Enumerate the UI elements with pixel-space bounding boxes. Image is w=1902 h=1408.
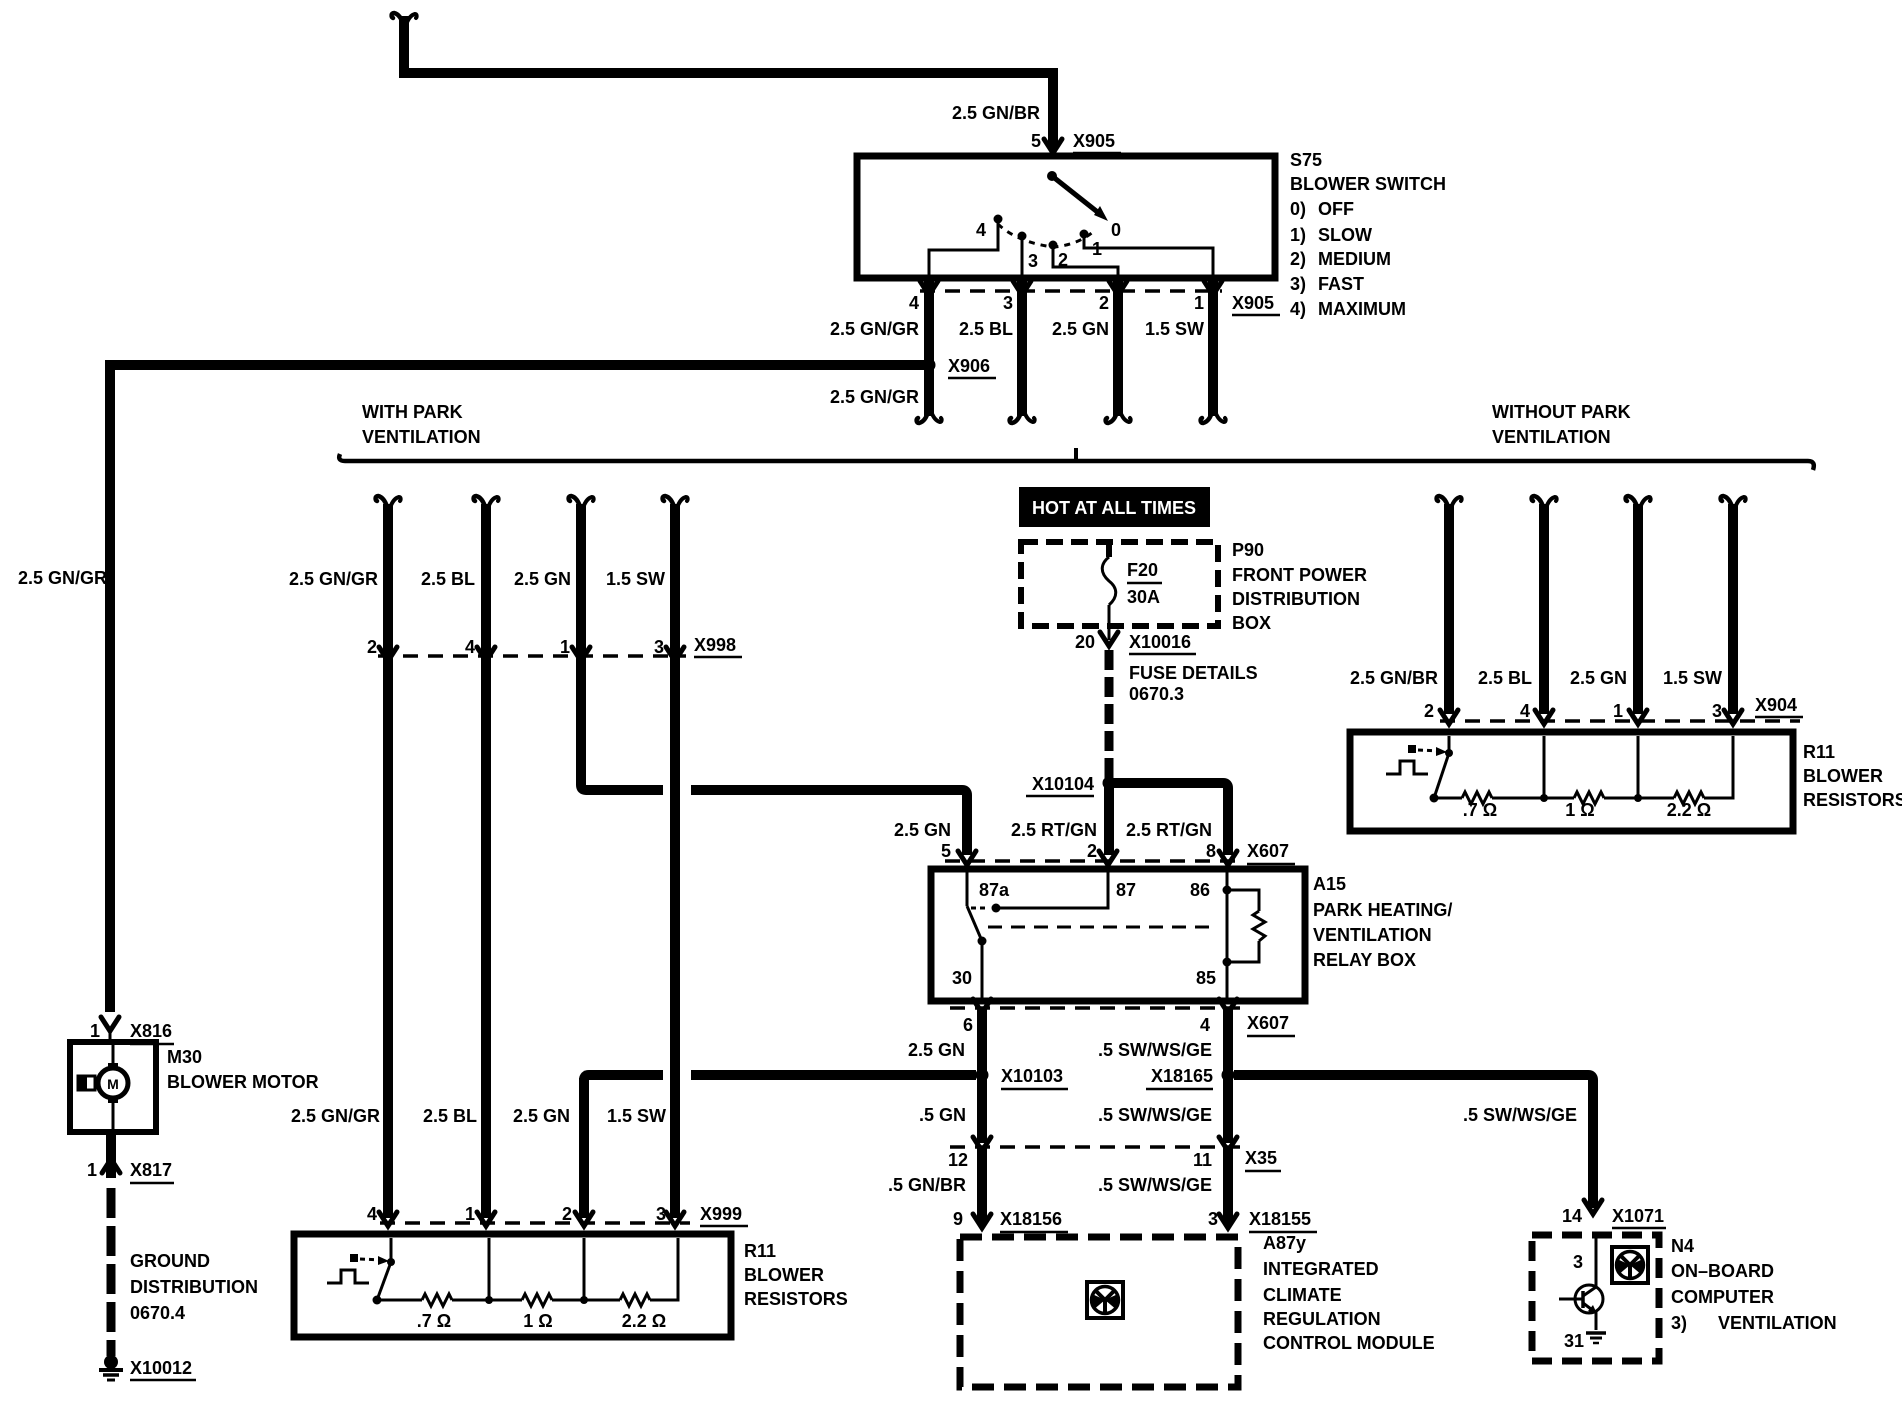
svg-text:FAST: FAST — [1318, 274, 1364, 294]
svg-text:2: 2 — [1087, 841, 1097, 861]
svg-text:2.5 GN/GR: 2.5 GN/GR — [830, 387, 919, 407]
svg-text:3: 3 — [656, 1204, 666, 1224]
svg-text:4: 4 — [976, 220, 986, 240]
svg-text:2.5 GN/GR: 2.5 GN/GR — [289, 569, 378, 589]
svg-text:2.5 BL: 2.5 BL — [959, 319, 1013, 339]
svg-text:3: 3 — [1208, 1209, 1218, 1229]
svg-text:2.5 GN: 2.5 GN — [513, 1106, 570, 1126]
svg-text:RESISTORS: RESISTORS — [744, 1289, 848, 1309]
svg-text:1): 1) — [1290, 225, 1306, 245]
svg-text:R11: R11 — [744, 1241, 776, 1261]
svg-text:RESISTORS: RESISTORS — [1803, 790, 1902, 810]
svg-text:2: 2 — [367, 637, 377, 657]
svg-text:30A: 30A — [1127, 587, 1160, 607]
svg-text:X905: X905 — [1232, 293, 1274, 313]
svg-text:BLOWER SWITCH: BLOWER SWITCH — [1290, 174, 1446, 194]
svg-text:.7 Ω: .7 Ω — [1463, 800, 1497, 820]
svg-text:2.5 RT/GN: 2.5 RT/GN — [1126, 820, 1212, 840]
svg-text:X607: X607 — [1247, 1013, 1289, 1033]
svg-text:MAXIMUM: MAXIMUM — [1318, 299, 1406, 319]
svg-text:8: 8 — [1206, 841, 1216, 861]
svg-text:X607: X607 — [1247, 841, 1289, 861]
svg-text:30: 30 — [952, 968, 972, 988]
svg-text:2.5 GN: 2.5 GN — [894, 820, 951, 840]
svg-text:1: 1 — [1194, 293, 1204, 313]
svg-text:0670.4: 0670.4 — [130, 1303, 185, 1323]
svg-text:.5 SW/WS/GE: .5 SW/WS/GE — [1098, 1040, 1212, 1060]
svg-text:F20: F20 — [1127, 560, 1158, 580]
svg-text:X817: X817 — [130, 1160, 172, 1180]
svg-text:BLOWER: BLOWER — [744, 1265, 824, 1285]
svg-text:2.5 GN/GR: 2.5 GN/GR — [830, 319, 919, 339]
svg-text:COMPUTER: COMPUTER — [1671, 1287, 1774, 1307]
svg-text:86: 86 — [1190, 880, 1210, 900]
svg-text:2.2 Ω: 2.2 Ω — [1667, 800, 1711, 820]
svg-text:2.5 GN/GR: 2.5 GN/GR — [18, 568, 107, 588]
svg-text:5: 5 — [1031, 131, 1041, 151]
svg-text:RELAY BOX: RELAY BOX — [1313, 950, 1416, 970]
svg-text:2: 2 — [1099, 293, 1109, 313]
svg-text:X905: X905 — [1073, 131, 1115, 151]
svg-text:1.5 SW: 1.5 SW — [607, 1106, 666, 1126]
svg-text:2.5 RT/GN: 2.5 RT/GN — [1011, 820, 1097, 840]
svg-text:2): 2) — [1290, 249, 1306, 269]
svg-text:4: 4 — [367, 1204, 377, 1224]
svg-text:2.5 BL: 2.5 BL — [423, 1106, 477, 1126]
svg-text:4: 4 — [909, 293, 919, 313]
svg-text:FUSE DETAILS: FUSE DETAILS — [1129, 663, 1258, 683]
svg-text:VENTILATION: VENTILATION — [1492, 427, 1611, 447]
svg-text:WITHOUT PARK: WITHOUT PARK — [1492, 402, 1631, 422]
svg-text:2.5 BL: 2.5 BL — [1478, 668, 1532, 688]
svg-text:12: 12 — [948, 1150, 968, 1170]
svg-text:1: 1 — [1613, 701, 1623, 721]
svg-text:31: 31 — [1564, 1331, 1584, 1351]
svg-text:5: 5 — [941, 841, 951, 861]
svg-text:1: 1 — [560, 637, 570, 657]
svg-text:X18155: X18155 — [1249, 1209, 1311, 1229]
svg-text:6: 6 — [963, 1015, 973, 1035]
svg-text:2: 2 — [1424, 701, 1434, 721]
svg-text:3: 3 — [1028, 251, 1038, 271]
svg-text:P90: P90 — [1232, 540, 1264, 560]
svg-text:OFF: OFF — [1318, 199, 1354, 219]
svg-text:1 Ω: 1 Ω — [1565, 800, 1594, 820]
svg-text:X816: X816 — [130, 1021, 172, 1041]
svg-text:X1071: X1071 — [1612, 1206, 1664, 1226]
svg-text:.5 GN/BR: .5 GN/BR — [888, 1175, 966, 1195]
svg-text:X998: X998 — [694, 635, 736, 655]
svg-text:2.5 GN/GR: 2.5 GN/GR — [291, 1106, 380, 1126]
svg-text:REGULATION: REGULATION — [1263, 1309, 1381, 1329]
svg-text:2.5 BL: 2.5 BL — [421, 569, 475, 589]
svg-text:2.2 Ω: 2.2 Ω — [622, 1311, 666, 1331]
svg-text:4: 4 — [1200, 1015, 1210, 1035]
svg-text:3): 3) — [1671, 1313, 1687, 1333]
svg-text:4): 4) — [1290, 299, 1306, 319]
svg-text:1: 1 — [465, 1204, 475, 1224]
svg-text:CLIMATE: CLIMATE — [1263, 1285, 1342, 1305]
svg-text:DISTRIBUTION: DISTRIBUTION — [130, 1277, 258, 1297]
svg-text:1: 1 — [87, 1160, 97, 1180]
svg-text:2.5 GN: 2.5 GN — [1052, 319, 1109, 339]
svg-text:SLOW: SLOW — [1318, 225, 1372, 245]
svg-text:3: 3 — [654, 637, 664, 657]
svg-text:20: 20 — [1075, 632, 1095, 652]
svg-text:R11: R11 — [1803, 742, 1835, 762]
svg-text:X35: X35 — [1245, 1148, 1277, 1168]
svg-text:2.5 GN/BR: 2.5 GN/BR — [952, 103, 1040, 123]
svg-text:INTEGRATED: INTEGRATED — [1263, 1259, 1379, 1279]
svg-text:X999: X999 — [700, 1204, 742, 1224]
svg-text:1: 1 — [90, 1021, 100, 1041]
svg-text:M: M — [107, 1076, 119, 1092]
svg-text:1.5 SW: 1.5 SW — [1663, 668, 1722, 688]
svg-text:S75: S75 — [1290, 150, 1322, 170]
svg-text:X10016: X10016 — [1129, 632, 1191, 652]
svg-text:14: 14 — [1562, 1206, 1582, 1226]
svg-text:.5 SW/WS/GE: .5 SW/WS/GE — [1463, 1105, 1577, 1125]
svg-text:0670.3: 0670.3 — [1129, 684, 1184, 704]
svg-text:4: 4 — [1520, 701, 1530, 721]
svg-text:9: 9 — [953, 1209, 963, 1229]
svg-text:X10012: X10012 — [130, 1358, 192, 1378]
svg-text:.5 SW/WS/GE: .5 SW/WS/GE — [1098, 1105, 1212, 1125]
svg-text:.5 GN: .5 GN — [919, 1105, 966, 1125]
svg-text:0): 0) — [1290, 199, 1306, 219]
svg-text:3): 3) — [1290, 274, 1306, 294]
svg-text:2.5 GN: 2.5 GN — [514, 569, 571, 589]
svg-text:3: 3 — [1573, 1252, 1583, 1272]
svg-text:GROUND: GROUND — [130, 1251, 210, 1271]
svg-text:2: 2 — [562, 1204, 572, 1224]
svg-text:X10103: X10103 — [1001, 1066, 1063, 1086]
svg-text:PARK HEATING/: PARK HEATING/ — [1313, 900, 1452, 920]
svg-text:X18156: X18156 — [1000, 1209, 1062, 1229]
svg-text:4: 4 — [465, 637, 475, 657]
svg-text:87a: 87a — [979, 880, 1010, 900]
svg-text:MEDIUM: MEDIUM — [1318, 249, 1391, 269]
svg-text:BOX: BOX — [1232, 613, 1271, 633]
svg-text:FRONT POWER: FRONT POWER — [1232, 565, 1367, 585]
svg-text:1 Ω: 1 Ω — [523, 1311, 552, 1331]
svg-text:87: 87 — [1116, 880, 1136, 900]
svg-text:VENTILATION: VENTILATION — [362, 427, 481, 447]
svg-text:M30: M30 — [167, 1047, 202, 1067]
svg-text:X10104: X10104 — [1032, 774, 1094, 794]
svg-text:X18165: X18165 — [1151, 1066, 1213, 1086]
svg-text:.7 Ω: .7 Ω — [417, 1311, 451, 1331]
svg-text:N4: N4 — [1671, 1236, 1694, 1256]
svg-text:2.5 GN: 2.5 GN — [1570, 668, 1627, 688]
svg-text:CONTROL MODULE: CONTROL MODULE — [1263, 1333, 1435, 1353]
svg-text:85: 85 — [1196, 968, 1216, 988]
svg-text:A87y: A87y — [1263, 1233, 1306, 1253]
svg-text:HOT AT ALL TIMES: HOT AT ALL TIMES — [1032, 498, 1196, 518]
svg-text:0: 0 — [1111, 220, 1121, 240]
svg-text:1.5 SW: 1.5 SW — [606, 569, 665, 589]
svg-text:1.5 SW: 1.5 SW — [1145, 319, 1204, 339]
svg-text:BLOWER: BLOWER — [1803, 766, 1883, 786]
svg-text:BLOWER MOTOR: BLOWER MOTOR — [167, 1072, 319, 1092]
svg-text:DISTRIBUTION: DISTRIBUTION — [1232, 589, 1360, 609]
svg-text:2.5 GN: 2.5 GN — [908, 1040, 965, 1060]
svg-text:WITH PARK: WITH PARK — [362, 402, 463, 422]
svg-text:11: 11 — [1193, 1150, 1212, 1170]
svg-text:.5 SW/WS/GE: .5 SW/WS/GE — [1098, 1175, 1212, 1195]
svg-text:A15: A15 — [1313, 874, 1346, 894]
svg-text:3: 3 — [1003, 293, 1013, 313]
svg-text:ON–BOARD: ON–BOARD — [1671, 1261, 1774, 1281]
svg-text:X904: X904 — [1755, 695, 1797, 715]
svg-text:VENTILATION: VENTILATION — [1313, 925, 1432, 945]
svg-text:X906: X906 — [948, 356, 990, 376]
svg-text:2.5 GN/BR: 2.5 GN/BR — [1350, 668, 1438, 688]
svg-text:VENTILATION: VENTILATION — [1718, 1313, 1837, 1333]
svg-text:3: 3 — [1712, 701, 1722, 721]
